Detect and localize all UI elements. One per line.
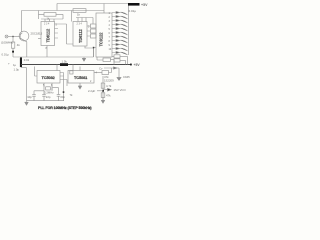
svg-text:1: 1 xyxy=(109,12,111,15)
svg-text:1k: 1k xyxy=(77,13,81,17)
node dot on x63.5 xyxy=(63,91,65,93)
wire U5 bottom pin to ground xyxy=(79,83,81,86)
svg-text:PLL FOR 100MHz (STEP 500kHz): PLL FOR 100MHz (STEP 500kHz) xyxy=(38,106,92,110)
wire VCO arrow xyxy=(103,88,111,91)
wire U2 bottom pin xyxy=(85,46,94,57)
wire U2 top pins xyxy=(76,18,93,25)
svg-text:0.01μ: 0.01μ xyxy=(129,9,137,13)
svg-text:1SV VCO: 1SV VCO xyxy=(114,88,127,92)
svg-text:2.2μF: 2.2μF xyxy=(88,89,95,93)
wire U1 bottom pin to ground xyxy=(46,46,48,58)
wire U3 bottom pin 1 xyxy=(97,57,103,60)
wire R2 to ground line xyxy=(12,48,14,57)
wire VCO column xyxy=(102,76,104,100)
svg-text:TC5081: TC5081 xyxy=(74,75,88,80)
wire R5 left stub xyxy=(112,55,114,57)
wire U5 output pin xyxy=(94,72,102,74)
wire U4 right pins xyxy=(60,73,67,80)
switch S3 row3 xyxy=(112,19,128,23)
wire U1 feed stub xyxy=(39,11,45,20)
crystal X1 xyxy=(44,86,52,90)
svg-text:C945: C945 xyxy=(123,75,130,79)
wire U4 pin to U5 xyxy=(66,80,68,87)
svg-text:20p: 20p xyxy=(60,95,65,99)
svg-text:+: + xyxy=(8,62,10,66)
IC U4 TC5082 xyxy=(37,71,60,84)
svg-text:TC9122: TC9122 xyxy=(99,32,104,47)
wire varactor drop xyxy=(118,68,120,77)
switch S6 row6 xyxy=(112,31,128,35)
svg-text:3: 3 xyxy=(109,20,111,23)
switch S11 row11 xyxy=(112,51,128,55)
wire Q1 emitter down xyxy=(26,42,28,57)
wire left column down xyxy=(26,68,28,101)
switch S2 row2 xyxy=(112,15,128,19)
choke L1 (thick bar top right) xyxy=(128,3,140,6)
svg-text:6: 6 xyxy=(109,32,111,35)
svg-text:TD6112: TD6112 xyxy=(78,28,83,43)
wire U2 right pins xyxy=(87,26,91,36)
svg-text:0.01: 0.01 xyxy=(24,58,30,62)
node base junction xyxy=(12,36,13,37)
wire crystal ground line xyxy=(27,100,65,102)
switch S5 row5 xyxy=(112,27,128,31)
resistor R7 47k xyxy=(102,71,109,75)
svg-text:1.5k: 1.5k xyxy=(62,60,68,64)
switch S8 row8 xyxy=(112,39,128,43)
capacitor C2 bead (thick bar on rail) xyxy=(60,63,68,66)
svg-text:4k: 4k xyxy=(17,43,21,47)
svg-text:TC5082: TC5082 xyxy=(42,75,56,80)
wire input to base xyxy=(8,36,20,38)
wire IC3 top feed xyxy=(103,4,105,14)
input terminal J1 xyxy=(5,35,8,38)
wire U2 left feed xyxy=(71,11,73,22)
node +B terminal dot xyxy=(130,64,132,66)
svg-text:TD6112: TD6112 xyxy=(46,28,51,43)
wire switch bus xyxy=(128,6,130,56)
wire U4 out link xyxy=(63,73,65,101)
wire U3 left pin xyxy=(94,48,97,58)
resistor R8 xyxy=(101,83,105,88)
wire R7 to node xyxy=(109,68,112,73)
wire U1 left pin stub xyxy=(38,38,41,40)
IC U5 TC5081 xyxy=(68,71,94,84)
svg-text:1S2209: 1S2209 xyxy=(104,78,114,82)
switch S4 row4 xyxy=(112,23,128,27)
transistor Q1 2SC1815 xyxy=(19,31,29,41)
resistor RN2 xyxy=(91,29,97,33)
resistor R2 bias xyxy=(11,42,14,48)
IC U3 TC9122 xyxy=(96,13,112,57)
wire U4 vdd stub xyxy=(56,65,58,71)
ground bottom left xyxy=(25,101,29,106)
resistor R1 1k xyxy=(44,13,56,17)
svg-text:10: 10 xyxy=(109,48,112,51)
wire U1 to U2 link xyxy=(67,24,74,44)
pin box U5 left xyxy=(70,71,73,74)
svg-text:2 3 4: 2 3 4 xyxy=(77,23,83,26)
IC U2 TD6112 xyxy=(73,22,87,47)
node junction dot xyxy=(12,51,14,53)
svg-text:4: 4 xyxy=(96,72,98,75)
resistor RN1 xyxy=(91,24,97,28)
wire U5 top pins xyxy=(73,65,80,71)
capacitor C5 xyxy=(32,91,36,101)
node junction dot xyxy=(102,90,104,92)
node dot U3 left pin xyxy=(93,47,95,49)
capacitor C6 xyxy=(42,95,46,101)
resistor R9 xyxy=(101,93,105,98)
svg-text:5: 5 xyxy=(43,84,45,87)
wire U4 left pin xyxy=(35,67,38,77)
wire crystal stubs xyxy=(44,83,52,87)
wire bar bottom to left column xyxy=(21,66,27,69)
svg-text:7: 7 xyxy=(109,36,111,39)
resistor R3 1k xyxy=(73,9,86,13)
svg-text:2: 2 xyxy=(90,80,92,83)
svg-text:10p: 10p xyxy=(27,95,32,99)
wire arrow feed xyxy=(104,67,119,69)
svg-text:+5V: +5V xyxy=(141,3,148,7)
svg-text:4.7k: 4.7k xyxy=(106,84,112,88)
wire cap row link xyxy=(34,91,44,95)
wire R4 to bold rail xyxy=(111,60,115,65)
node bar top dot xyxy=(20,57,22,59)
switch S1 row1 xyxy=(112,11,128,15)
svg-text:7k: 7k xyxy=(70,93,74,97)
wire R5 to bus xyxy=(120,56,128,64)
capacitor C9 2.2uF wire xyxy=(97,90,103,92)
switch S7 row7 xyxy=(112,35,128,39)
wire +5V top rail A xyxy=(57,3,128,5)
switch S10 row10 xyxy=(112,47,128,51)
wire U1 right pins xyxy=(55,24,67,38)
svg-text:9: 9 xyxy=(109,44,111,47)
svg-text:6: 6 xyxy=(51,84,53,87)
svg-text:0.01μ: 0.01μ xyxy=(2,53,9,57)
svg-text:2: 2 xyxy=(109,16,111,19)
ground below varactor xyxy=(117,78,121,81)
wire R6 right xyxy=(120,60,126,64)
svg-text:4: 4 xyxy=(109,24,111,27)
wire R1 right to U1 top pins xyxy=(41,14,63,21)
svg-text:22p: 22p xyxy=(46,95,51,99)
svg-text:5: 5 xyxy=(109,28,111,31)
svg-text:8: 8 xyxy=(109,40,111,43)
svg-text:(100MHz): (100MHz) xyxy=(1,41,13,45)
svg-text:2 3 4: 2 3 4 xyxy=(44,23,50,26)
svg-text:Cv: Cv xyxy=(99,67,103,71)
capacitor C1 bypass (thick bar) xyxy=(20,58,22,67)
wire Q1 collector to rail xyxy=(21,11,23,33)
ground below R9 xyxy=(101,97,105,103)
capacitor C7 xyxy=(52,88,60,101)
svg-text:2SC1815: 2SC1815 xyxy=(31,32,43,36)
resistor R4 xyxy=(103,58,111,61)
switch S9 row9 xyxy=(112,43,128,47)
svg-text:1.0μ: 1.0μ xyxy=(14,67,20,71)
ground below U2 xyxy=(82,57,86,61)
svg-text:3.2MHz: 3.2MHz xyxy=(44,90,54,94)
svg-text:+5V: +5V xyxy=(134,63,141,67)
ground below U5 xyxy=(78,86,82,89)
resistor R6 xyxy=(114,59,120,62)
wire +5V rail B xyxy=(22,10,105,12)
resistor R5 xyxy=(114,55,120,58)
IC U1 TD6112 xyxy=(41,22,55,46)
svg-text:47k: 47k xyxy=(106,94,111,98)
wire base bias drop xyxy=(12,37,14,43)
wire rail A drop to rail B xyxy=(56,4,58,11)
resistor RN3 xyxy=(91,34,97,38)
wire +5V bold lower rail xyxy=(21,64,131,66)
wire ground line mid-left xyxy=(13,56,94,58)
